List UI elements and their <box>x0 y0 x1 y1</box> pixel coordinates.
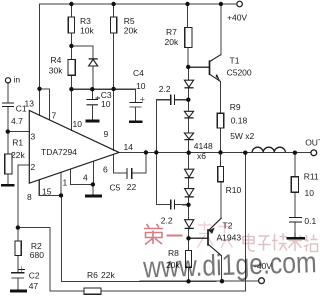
junction node R9-R10 output <box>218 150 222 154</box>
resistor R11 <box>291 177 298 193</box>
wire R7 bottom lead <box>187 48 189 67</box>
wire pin2 to feedback node <box>18 165 29 228</box>
wire R10 to T2 emitter <box>220 182 222 218</box>
junction node T2 collector rail <box>220 279 224 283</box>
wire T1 emitter to R9 <box>220 82 222 114</box>
wire pin4 L drop <box>70 169 93 184</box>
wire R8 bottom lead <box>188 267 190 281</box>
capacitor C4 plus electrolytic <box>130 97 145 107</box>
svg-text:R9: R9 <box>230 102 241 112</box>
wire pin4 line <box>92 161 94 184</box>
wire bootstrap riser <box>155 100 157 205</box>
wire input terminal to C1 <box>7 83 9 103</box>
watermark char shu <box>289 233 303 251</box>
capacitor C1 <box>2 103 14 107</box>
junction node R7 top rail <box>185 2 189 6</box>
wire R3 top lead <box>70 4 72 17</box>
wire R11 to C6 <box>294 192 296 217</box>
junction node R7-base-chain <box>186 65 190 69</box>
wire R4 bottom lead <box>70 75 72 89</box>
junction node R3-R4 <box>69 44 73 48</box>
svg-text:in: in <box>14 75 21 85</box>
svg-text:7: 7 <box>52 110 57 120</box>
junction node pin2 feedback <box>16 225 20 229</box>
svg-text:10: 10 <box>305 188 315 198</box>
wire pin10 line <box>70 89 72 130</box>
wire pin15 drop <box>39 180 61 196</box>
svg-text:2: 2 <box>31 162 36 172</box>
diode D3 4148 <box>184 133 193 140</box>
resistor R8 <box>185 251 191 268</box>
svg-text:680: 680 <box>30 250 44 260</box>
svg-text:R10: R10 <box>226 185 242 195</box>
watermark char ji <box>272 233 287 251</box>
svg-text:10: 10 <box>101 99 111 109</box>
op-amp U1 TDA7294 triangle <box>29 111 119 184</box>
terminal +40V <box>237 1 243 7</box>
svg-text:2.2: 2.2 <box>161 215 173 225</box>
capacitor upper 2.2 <box>171 95 175 105</box>
wire bottom rail to T2 <box>62 280 223 282</box>
svg-text:15: 15 <box>42 186 52 196</box>
svg-text:R6: R6 <box>87 270 98 280</box>
wire lower 2.2 right <box>175 204 188 206</box>
junction node R3 top rail <box>69 2 73 6</box>
junction node chain output rail <box>187 151 191 155</box>
svg-text:22k: 22k <box>11 150 25 160</box>
svg-text:OUT: OUT <box>305 137 320 147</box>
wire R3 bottom lead <box>70 33 72 46</box>
svg-text:www.di1ge.com: www.di1ge.com <box>142 245 317 284</box>
ground pin4 <box>85 195 102 198</box>
junction node left rail pin7 <box>37 87 41 91</box>
terminal in <box>5 78 10 83</box>
ground C2 <box>10 290 27 293</box>
wire output rail <box>119 151 311 153</box>
wire horizontal bias node y89 <box>71 88 135 90</box>
capacitor lower 2.2 <box>171 199 175 209</box>
resistor R5 <box>111 17 117 33</box>
junction node chain T2 base <box>186 236 190 240</box>
wire to -40V terminal <box>222 280 259 282</box>
resistor R3 <box>68 17 74 33</box>
capacitor C6 0.1 <box>289 218 302 223</box>
junction node R6 riser output <box>243 151 247 155</box>
svg-text:4: 4 <box>83 172 88 182</box>
wire pin4 ground lead <box>92 184 94 194</box>
junction node pin4 ground <box>91 182 95 186</box>
wire C6 ground lead <box>294 222 296 236</box>
diode D2 4148 <box>184 111 193 118</box>
svg-text:47: 47 <box>29 281 39 291</box>
svg-text:10: 10 <box>73 119 83 129</box>
junction node chain upper 2.2 <box>186 98 190 102</box>
svg-text:6: 6 <box>103 164 108 174</box>
resistor R9 <box>217 113 224 128</box>
capacitor C2 plus electrolytic <box>11 267 25 279</box>
wire R9 bottom lead <box>220 128 222 153</box>
wire pin1 drop <box>60 172 62 195</box>
ground C4 <box>129 120 143 123</box>
ground C3 <box>86 120 100 123</box>
svg-text:3: 3 <box>31 131 36 141</box>
resistor R10 <box>218 166 224 181</box>
svg-text:30k: 30k <box>49 66 63 76</box>
wire pin3 horizontal <box>8 131 30 133</box>
wire left rail from top to pin13 <box>39 4 41 115</box>
svg-text:10k: 10k <box>80 25 94 35</box>
wire T1 base wire <box>188 66 209 68</box>
watermark char yi red <box>167 235 183 237</box>
wire top +40V rail <box>40 3 237 5</box>
svg-text:C2: C2 <box>29 270 40 280</box>
wire C3 top lead <box>91 89 93 99</box>
svg-text:14: 14 <box>124 142 134 152</box>
wire mute-stby node down <box>61 195 63 281</box>
svg-text:10: 10 <box>136 81 146 91</box>
wire diode D7 bottom lead <box>92 66 94 89</box>
wire C2 ground lead <box>17 278 19 290</box>
wire T2 base wire <box>189 237 208 239</box>
svg-text:C5: C5 <box>110 182 121 192</box>
svg-text:R11: R11 <box>304 171 319 181</box>
capacitor C3 plus electrolytic <box>87 96 101 105</box>
junction node pin15-pin1 <box>59 193 63 197</box>
svg-text:1: 1 <box>63 177 68 187</box>
diode D5 4148 <box>185 189 194 197</box>
junction node C5 output <box>144 150 148 154</box>
resistor R4 <box>68 60 75 76</box>
junction node C1-R1-pin3 <box>6 129 10 133</box>
wire diode chain segments <box>187 67 189 80</box>
svg-text:20k: 20k <box>124 25 138 35</box>
resistor R6 <box>84 288 101 294</box>
watermark char dian <box>243 234 255 252</box>
junction node R4 bottom <box>69 87 73 91</box>
junction node R5-pin9 <box>111 87 115 91</box>
wire upper 2.2 left <box>156 99 170 101</box>
wire feedback jog to R6 line <box>18 228 84 291</box>
wire R4 top lead <box>70 46 72 60</box>
svg-text:x6: x6 <box>197 151 206 161</box>
svg-text:T1: T1 <box>230 55 240 65</box>
wire C4 ground lead <box>135 107 137 121</box>
svg-text:22k: 22k <box>101 270 115 280</box>
watermark char di1 red <box>144 224 163 245</box>
wire C3 ground lead <box>91 105 93 120</box>
diode D4 4148 <box>185 169 194 178</box>
terminal OUT <box>311 150 317 156</box>
wire R2 top lead <box>17 228 19 241</box>
svg-text:4148: 4148 <box>194 141 213 151</box>
wire C5 to output node <box>132 152 146 173</box>
wire R5 top lead <box>113 4 115 17</box>
wire T2 collector down <box>220 256 222 282</box>
watermark char faint a <box>198 222 214 248</box>
svg-text:+40V: +40V <box>227 12 247 22</box>
wire +40V terminal stub <box>232 3 237 5</box>
transistor T2 A1943 PNP <box>208 218 222 256</box>
watermark char zhan <box>304 235 318 252</box>
svg-text:2.2: 2.2 <box>159 84 171 94</box>
junction node T1 collector rail <box>219 2 223 6</box>
diode D6 4148 <box>185 220 194 229</box>
terminal -40V <box>259 278 265 284</box>
wire pin6 drop <box>114 154 127 173</box>
wire R1 ground lead <box>7 174 9 184</box>
ground C6 zobel <box>286 237 304 240</box>
svg-text:0.18: 0.18 <box>231 115 248 125</box>
svg-text:20k: 20k <box>165 37 179 47</box>
resistor R7 <box>185 28 192 48</box>
svg-text:C4: C4 <box>133 68 144 78</box>
diode D7 zener near R4 <box>89 59 98 66</box>
watermark char zi <box>258 236 271 251</box>
junction node chain lower 2.2 <box>186 203 190 207</box>
capacitor C5 <box>127 168 132 179</box>
svg-text:8: 8 <box>27 192 32 202</box>
junction node R8 bottom rail <box>186 279 190 283</box>
svg-text:R7: R7 <box>166 27 177 37</box>
wire R2 to C2 <box>17 255 19 272</box>
svg-text:TDA7294: TDA7294 <box>41 147 77 157</box>
wire R5 bottom lead to pin9 <box>113 33 115 150</box>
wire pin7 branch from left-rail node <box>40 89 50 120</box>
svg-text:C5200: C5200 <box>227 68 252 78</box>
wire C4 drop from y89 <box>135 89 137 102</box>
watermark char faint b <box>218 223 234 249</box>
resistor R2 <box>15 241 21 256</box>
diode D1 4148 <box>184 80 193 88</box>
wire R6 right to output riser <box>101 153 245 291</box>
transistor T1 C5200 NPN <box>210 55 221 82</box>
wire R11 top lead <box>294 153 296 177</box>
wire upper 2.2 right <box>175 99 188 101</box>
wire R10 top lead <box>220 153 222 167</box>
inductor L1 output coil <box>252 147 285 152</box>
wire lower 2.2 left <box>156 204 170 206</box>
svg-text:13: 13 <box>25 98 35 108</box>
svg-text:4.7: 4.7 <box>11 116 23 126</box>
junction node zobel output <box>293 151 297 155</box>
resistor R1 <box>5 154 12 174</box>
svg-text:R4: R4 <box>51 55 62 65</box>
junction node R5 top rail <box>111 2 115 6</box>
ground R1 <box>1 184 15 187</box>
svg-text:0.1: 0.1 <box>304 216 316 226</box>
wire T1 collector to +40V rail <box>220 4 222 55</box>
junction node bootstrap output <box>154 150 158 154</box>
svg-text:22: 22 <box>127 182 137 192</box>
junction node C3 top <box>90 87 94 91</box>
wire R7 top lead <box>187 4 189 28</box>
wire R8 top lead <box>188 238 190 250</box>
svg-text:R1: R1 <box>12 138 23 148</box>
svg-text:9: 9 <box>104 129 109 139</box>
wire C1 to pin3 node <box>7 107 9 132</box>
svg-text:5W x2: 5W x2 <box>230 131 254 141</box>
wire R1 top lead <box>7 132 9 154</box>
wire node R3R4 to diode D7 top <box>71 46 93 59</box>
